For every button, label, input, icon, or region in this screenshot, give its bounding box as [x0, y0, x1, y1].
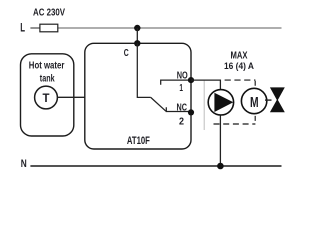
node junction on N line [217, 163, 224, 170]
svg-text:2: 2 [179, 116, 184, 127]
wire common from C down to switch pivot [137, 43, 150, 97]
wire from T to AT10F box [57, 96, 84, 98]
hot water tank box [21, 54, 74, 136]
node terminal NC 2 [188, 109, 194, 115]
svg-text:L: L [20, 23, 25, 35]
svg-text:N: N [21, 158, 27, 170]
svg-text:NO: NO [177, 71, 188, 82]
pump P1 circle [208, 90, 233, 115]
svg-text:NC: NC [177, 102, 188, 113]
wire pump to N line [219, 115, 221, 166]
fuse F1 [40, 24, 58, 32]
svg-text:16 (4) A: 16 (4) A [224, 61, 254, 72]
svg-text:Hot water: Hot water [29, 60, 65, 72]
wire motor to valve [265, 99, 272, 101]
svg-text:AT10F: AT10F [127, 135, 150, 147]
svg-text:tank: tank [40, 73, 55, 85]
node terminal NO 1 [188, 77, 194, 83]
pump triangle [214, 93, 233, 112]
valve symbol [270, 87, 285, 101]
svg-text:1: 1 [179, 83, 183, 94]
svg-text:C: C [124, 47, 129, 59]
wire from L down to terminal C [136, 28, 138, 43]
dashed boundary bottom edge [214, 123, 256, 125]
svg-text:AC 230V: AC 230V [33, 8, 65, 19]
node terminal C [134, 40, 140, 46]
controller box AT10F [85, 43, 191, 149]
dashed boundary right edge [254, 80, 256, 124]
dashed boundary top edge [225, 79, 256, 81]
wire NO to pump [191, 80, 220, 90]
faint boundary left edge [203, 81, 205, 130]
node junction on L line [134, 25, 140, 31]
svg-text:M: M [250, 94, 259, 111]
NO contact with tick [161, 80, 191, 85]
motor M circle [241, 88, 266, 113]
wire L line (phase) [30, 27, 40, 29]
switch arm (thrown to NC) [151, 97, 166, 111]
NC contact with tick [166, 107, 191, 111]
wire N line (neutral) [30, 165, 281, 167]
svg-text:MAX: MAX [231, 51, 248, 62]
thermostat sensor T circle [35, 86, 58, 109]
svg-text:T: T [43, 91, 51, 105]
